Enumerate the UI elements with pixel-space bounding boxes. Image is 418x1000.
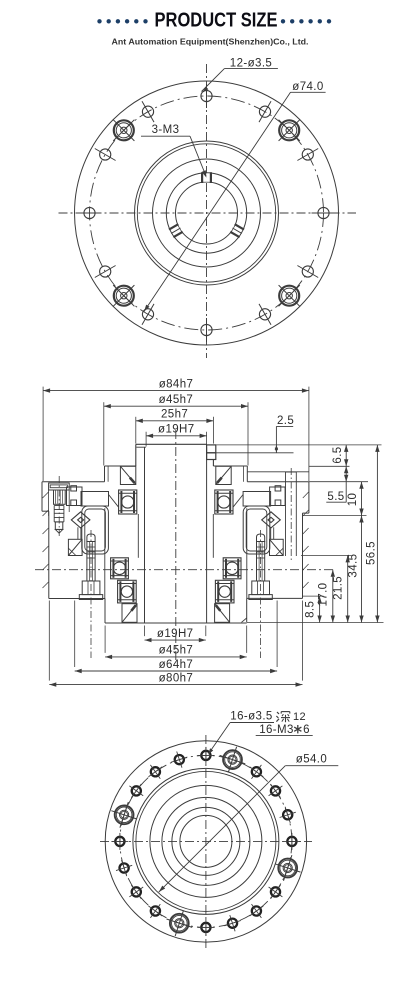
bottom view bolt hole 18deg (16-Ø3.5) — [280, 807, 296, 823]
bottom view bolt hole 198deg (16-Ø3.5) — [116, 860, 132, 876]
boss joint line right — [243, 466, 245, 482]
top view bolt hole 210deg (12-Ø3.5) — [95, 266, 116, 278]
boss left wall — [104, 466, 106, 482]
top view chamfer circle — [135, 141, 279, 285]
left shaft wall lower — [137, 514, 139, 558]
bottom view bolt hole 288deg (16-Ø3.5) — [224, 915, 240, 931]
dimension 6.5 — [332, 445, 348, 466]
svg-text:ø45h7: ø45h7 — [159, 394, 194, 406]
dimension 17.0 — [318, 570, 336, 623]
svg-text:8.5: 8.5 — [304, 601, 316, 618]
lower right bearing — [215, 580, 234, 603]
left hub hidden wall — [104, 508, 106, 598]
upper left counterbore walls — [49, 490, 70, 516]
extension line y481.7 right — [309, 481, 368, 483]
right cross roller — [262, 512, 281, 539]
flange left outer face — [41, 482, 43, 512]
lower left bolt — [87, 534, 95, 542]
svg-text:3-M3: 3-M3 — [152, 124, 180, 136]
middle right bearing — [223, 558, 241, 579]
dimension 25h7 (top) — [136, 409, 214, 444]
shaft left wall — [135, 444, 137, 466]
dimension 8.5 — [304, 596, 321, 622]
bottom view bolt hole 90deg (16-Ø3.5) — [197, 747, 214, 764]
top view counterbored hole 315deg — [279, 285, 300, 306]
section vertical axis — [175, 430, 177, 662]
top view bolt hole 180deg (12-Ø3.5) — [78, 207, 102, 218]
lower right bolt — [257, 534, 265, 542]
top view bolt hole 120deg (12-Ø3.5) — [142, 101, 154, 122]
dimension Ø19H7 (bottom) — [145, 626, 206, 643]
left clamp block — [67, 486, 83, 506]
left hatch block — [68, 539, 82, 555]
dimension Ø80h7 (bottom) — [49, 601, 302, 687]
flange top face right — [247, 481, 309, 483]
svg-text:ø84h7: ø84h7 — [159, 378, 194, 390]
right boss surface line — [247, 471, 309, 473]
left wall hatching — [43, 492, 49, 588]
bottom view bolt hole 108deg (16-Ø3.5) — [171, 752, 187, 768]
label Ø54.0 — [159, 754, 338, 893]
flange right outer face — [308, 482, 310, 513]
top view M3 mark 210deg — [169, 224, 183, 237]
svg-text:34.5: 34.5 — [347, 554, 359, 578]
flange left step — [42, 510, 49, 512]
svg-text:Ant Automation Equipment(Shenz: Ant Automation Equipment(Shenzhen)Co., L… — [112, 36, 309, 46]
dimension 5.5 — [326, 466, 348, 503]
upper left bearing — [119, 490, 137, 514]
svg-text:ø64h7: ø64h7 — [159, 659, 194, 671]
svg-text:56.5: 56.5 — [366, 541, 378, 565]
flange right step — [303, 512, 309, 514]
lower left bearing — [118, 580, 137, 603]
top view bolt hole 270deg (12-Ø3.5) — [201, 318, 212, 342]
top view counterbored hole 45deg — [279, 120, 300, 141]
flange top face left — [42, 481, 105, 483]
dimension 2.5 — [275, 415, 294, 453]
top view outer flange circle — [75, 81, 339, 345]
bottom view bolt hole 36deg (16-Ø3.5) — [269, 784, 283, 798]
header right dots — [281, 19, 331, 23]
upper right bearing — [215, 490, 233, 514]
right shaft wall lower — [212, 514, 214, 558]
upper left screw M3 — [49, 483, 70, 533]
boss top face left — [105, 465, 136, 467]
dimension 10 — [347, 482, 364, 516]
svg-text:ø54.0: ø54.0 — [296, 754, 327, 766]
bottom view outer circle — [105, 741, 306, 942]
section bottom face — [105, 622, 247, 624]
dimension 56.5 — [366, 445, 380, 623]
dimension 34.5 — [347, 516, 363, 623]
top view counterbored hole 135deg — [113, 120, 134, 141]
svg-text:12-ø3.5: 12-ø3.5 — [230, 58, 272, 70]
middle left bearing — [111, 558, 129, 579]
extension line y622.5 bottom ref — [247, 622, 384, 624]
flange left lower wall — [48, 511, 50, 598]
bottom view bolt hole 234deg (16-Ø3.5) — [149, 904, 163, 918]
upper left seal element — [120, 466, 135, 484]
bottom view circle r56 — [150, 785, 262, 897]
right bottom chamfer — [242, 618, 247, 622]
top view vertical center line — [206, 64, 208, 358]
flange bottom face right — [247, 597, 303, 599]
section horizontal axis — [35, 569, 335, 571]
flange bottom face left — [49, 598, 105, 600]
svg-text:ø80h7: ø80h7 — [159, 672, 194, 684]
upper right bolt hole — [286, 472, 297, 556]
bottom view flange inner circle — [136, 771, 276, 911]
shaft right wall — [212, 460, 214, 467]
svg-text:ø74.0: ø74.0 — [292, 81, 323, 93]
right flexspline cup — [243, 506, 270, 554]
svg-text:ø19H7: ø19H7 — [157, 628, 194, 640]
boss top face right — [213, 465, 247, 467]
svg-text:16-ø3.5: 16-ø3.5 — [230, 711, 272, 723]
label Ø74.0 — [144, 81, 326, 312]
top view bolt circle (dash-dot) — [90, 96, 324, 330]
top view bolt hole 330deg (12-Ø3.5) — [297, 266, 318, 278]
left output plate — [81, 492, 118, 507]
top view flange spigot circle — [166, 173, 246, 253]
bore right wall — [206, 447, 208, 623]
top view M3 mark 330deg — [230, 224, 244, 237]
top view hub circle — [153, 159, 261, 267]
bottom view bolt hole 180deg (16-Ø3.5) — [111, 833, 128, 850]
top view bolt hole 0deg (12-Ø3.5) — [312, 207, 336, 218]
lower left bolt axis — [90, 530, 92, 658]
bottom view bolt hole 270deg (16-Ø3.5) — [197, 919, 214, 936]
top view bore circle — [176, 182, 238, 244]
right output plate — [233, 492, 270, 507]
svg-text:21.5: 21.5 — [332, 576, 344, 600]
bottom view flange circle — [133, 768, 279, 914]
top view horizontal center line — [59, 212, 357, 214]
header left dots — [97, 19, 147, 23]
lower right bolt axis — [260, 530, 262, 658]
top view bolt hole 60deg (12-Ø3.5) — [259, 101, 271, 122]
bottom view bolt hole 324deg (16-Ø3.5) — [269, 885, 283, 899]
dimension Ø45h7 (bottom) — [105, 626, 247, 660]
bottom view bolt circle (dash-dot) — [120, 755, 292, 927]
svg-text:10: 10 — [347, 493, 359, 507]
top view bolt hole 150deg (12-Ø3.5) — [95, 149, 116, 161]
bottom view counterbored hole 162deg — [111, 802, 137, 828]
bottom view circle r34 — [172, 807, 240, 875]
bottom view bolt hole 0deg (16-Ø3.5) — [283, 833, 300, 850]
top view bolt hole 300deg (12-Ø3.5) — [259, 304, 271, 325]
svg-text:5.5: 5.5 — [327, 491, 344, 503]
top view bolt hole 240deg (12-Ø3.5) — [142, 304, 154, 325]
dimension 21.5 — [332, 555, 350, 622]
top view bolt hole 90deg (12-Ø3.5) — [201, 84, 212, 108]
svg-text:6.5: 6.5 — [332, 446, 344, 463]
bore left wall — [144, 447, 146, 623]
right wall hatching — [303, 492, 309, 588]
extension line y444.9 — [217, 444, 382, 446]
extension line y452.8 — [217, 452, 294, 454]
boss right wall — [246, 466, 248, 482]
top view M3 mark 90deg — [202, 172, 211, 183]
label 12-Ø3.5 — [202, 58, 278, 93]
label 16-Ø3.5 深12 — [208, 711, 306, 755]
bottom view counterbored hole 252deg — [167, 910, 193, 936]
bottom view counterbored hole 342deg — [275, 855, 301, 881]
bottom view horizontal center line — [100, 840, 312, 842]
extension line y515.5 — [303, 515, 367, 517]
extension line y555.4 — [301, 554, 352, 556]
dimension Ø45h7 (top) — [104, 394, 248, 466]
bottom view bolt hole 126deg (16-Ø3.5) — [149, 765, 163, 779]
right step wall to bottom — [246, 598, 248, 622]
bottom view circle r44 — [162, 797, 250, 885]
retaining ring groove lower — [207, 453, 216, 460]
right clamp block — [270, 486, 286, 506]
dimension Ø19H7 (top) — [146, 424, 207, 447]
top view bolt hole 30deg (12-Ø3.5) — [297, 149, 318, 161]
svg-text:12: 12 — [293, 711, 306, 723]
bottom view bolt hole 54deg (16-Ø3.5) — [250, 765, 264, 779]
upper right hole axis — [290, 468, 292, 560]
bottom view circle r26 — [180, 815, 232, 867]
retaining ring groove upper — [207, 445, 216, 453]
right hatch block — [270, 539, 284, 555]
bottom view counterbored hole 72deg — [220, 747, 246, 773]
top view counterbored hole 225deg — [113, 285, 134, 306]
dimension Ø84h7 (top) — [43, 378, 309, 481]
dimension Ø64h7 (bottom) — [75, 601, 277, 674]
right hub hidden wall — [246, 508, 248, 598]
shaft top plateau — [136, 443, 207, 445]
left step wall to bottom — [104, 599, 106, 624]
lower right seal element — [215, 604, 230, 623]
bottom view bolt hole 144deg (16-Ø3.5) — [129, 784, 143, 798]
left flexspline cup — [82, 506, 109, 554]
upper right seal element — [216, 466, 231, 484]
extension line y466.3 — [309, 465, 350, 467]
svg-text:2.5: 2.5 — [277, 415, 294, 427]
bottom view bolt hole 216deg (16-Ø3.5) — [129, 885, 143, 899]
shaft left step — [136, 446, 146, 448]
top view chamfer inner circle — [137, 144, 275, 282]
flange right lower wall — [302, 513, 304, 598]
left cross roller — [71, 512, 90, 539]
bottom view vertical center line — [205, 735, 207, 950]
svg-text:25h7: 25h7 — [161, 409, 188, 421]
label 3-M3 — [141, 124, 206, 178]
label 16-M3*6 — [256, 724, 313, 736]
svg-text:16-M3: 16-M3 — [259, 724, 294, 736]
lower left seal element — [122, 604, 137, 623]
svg-text:6: 6 — [303, 724, 310, 736]
svg-text:PRODUCT SIZE: PRODUCT SIZE — [155, 9, 278, 32]
boss joint line left — [107, 466, 109, 482]
upper left screw axis — [58, 476, 60, 536]
bottom view bolt hole 306deg (16-Ø3.5) — [250, 904, 264, 918]
svg-text:ø19H7: ø19H7 — [158, 424, 195, 436]
extension line y596.1 — [303, 595, 324, 597]
